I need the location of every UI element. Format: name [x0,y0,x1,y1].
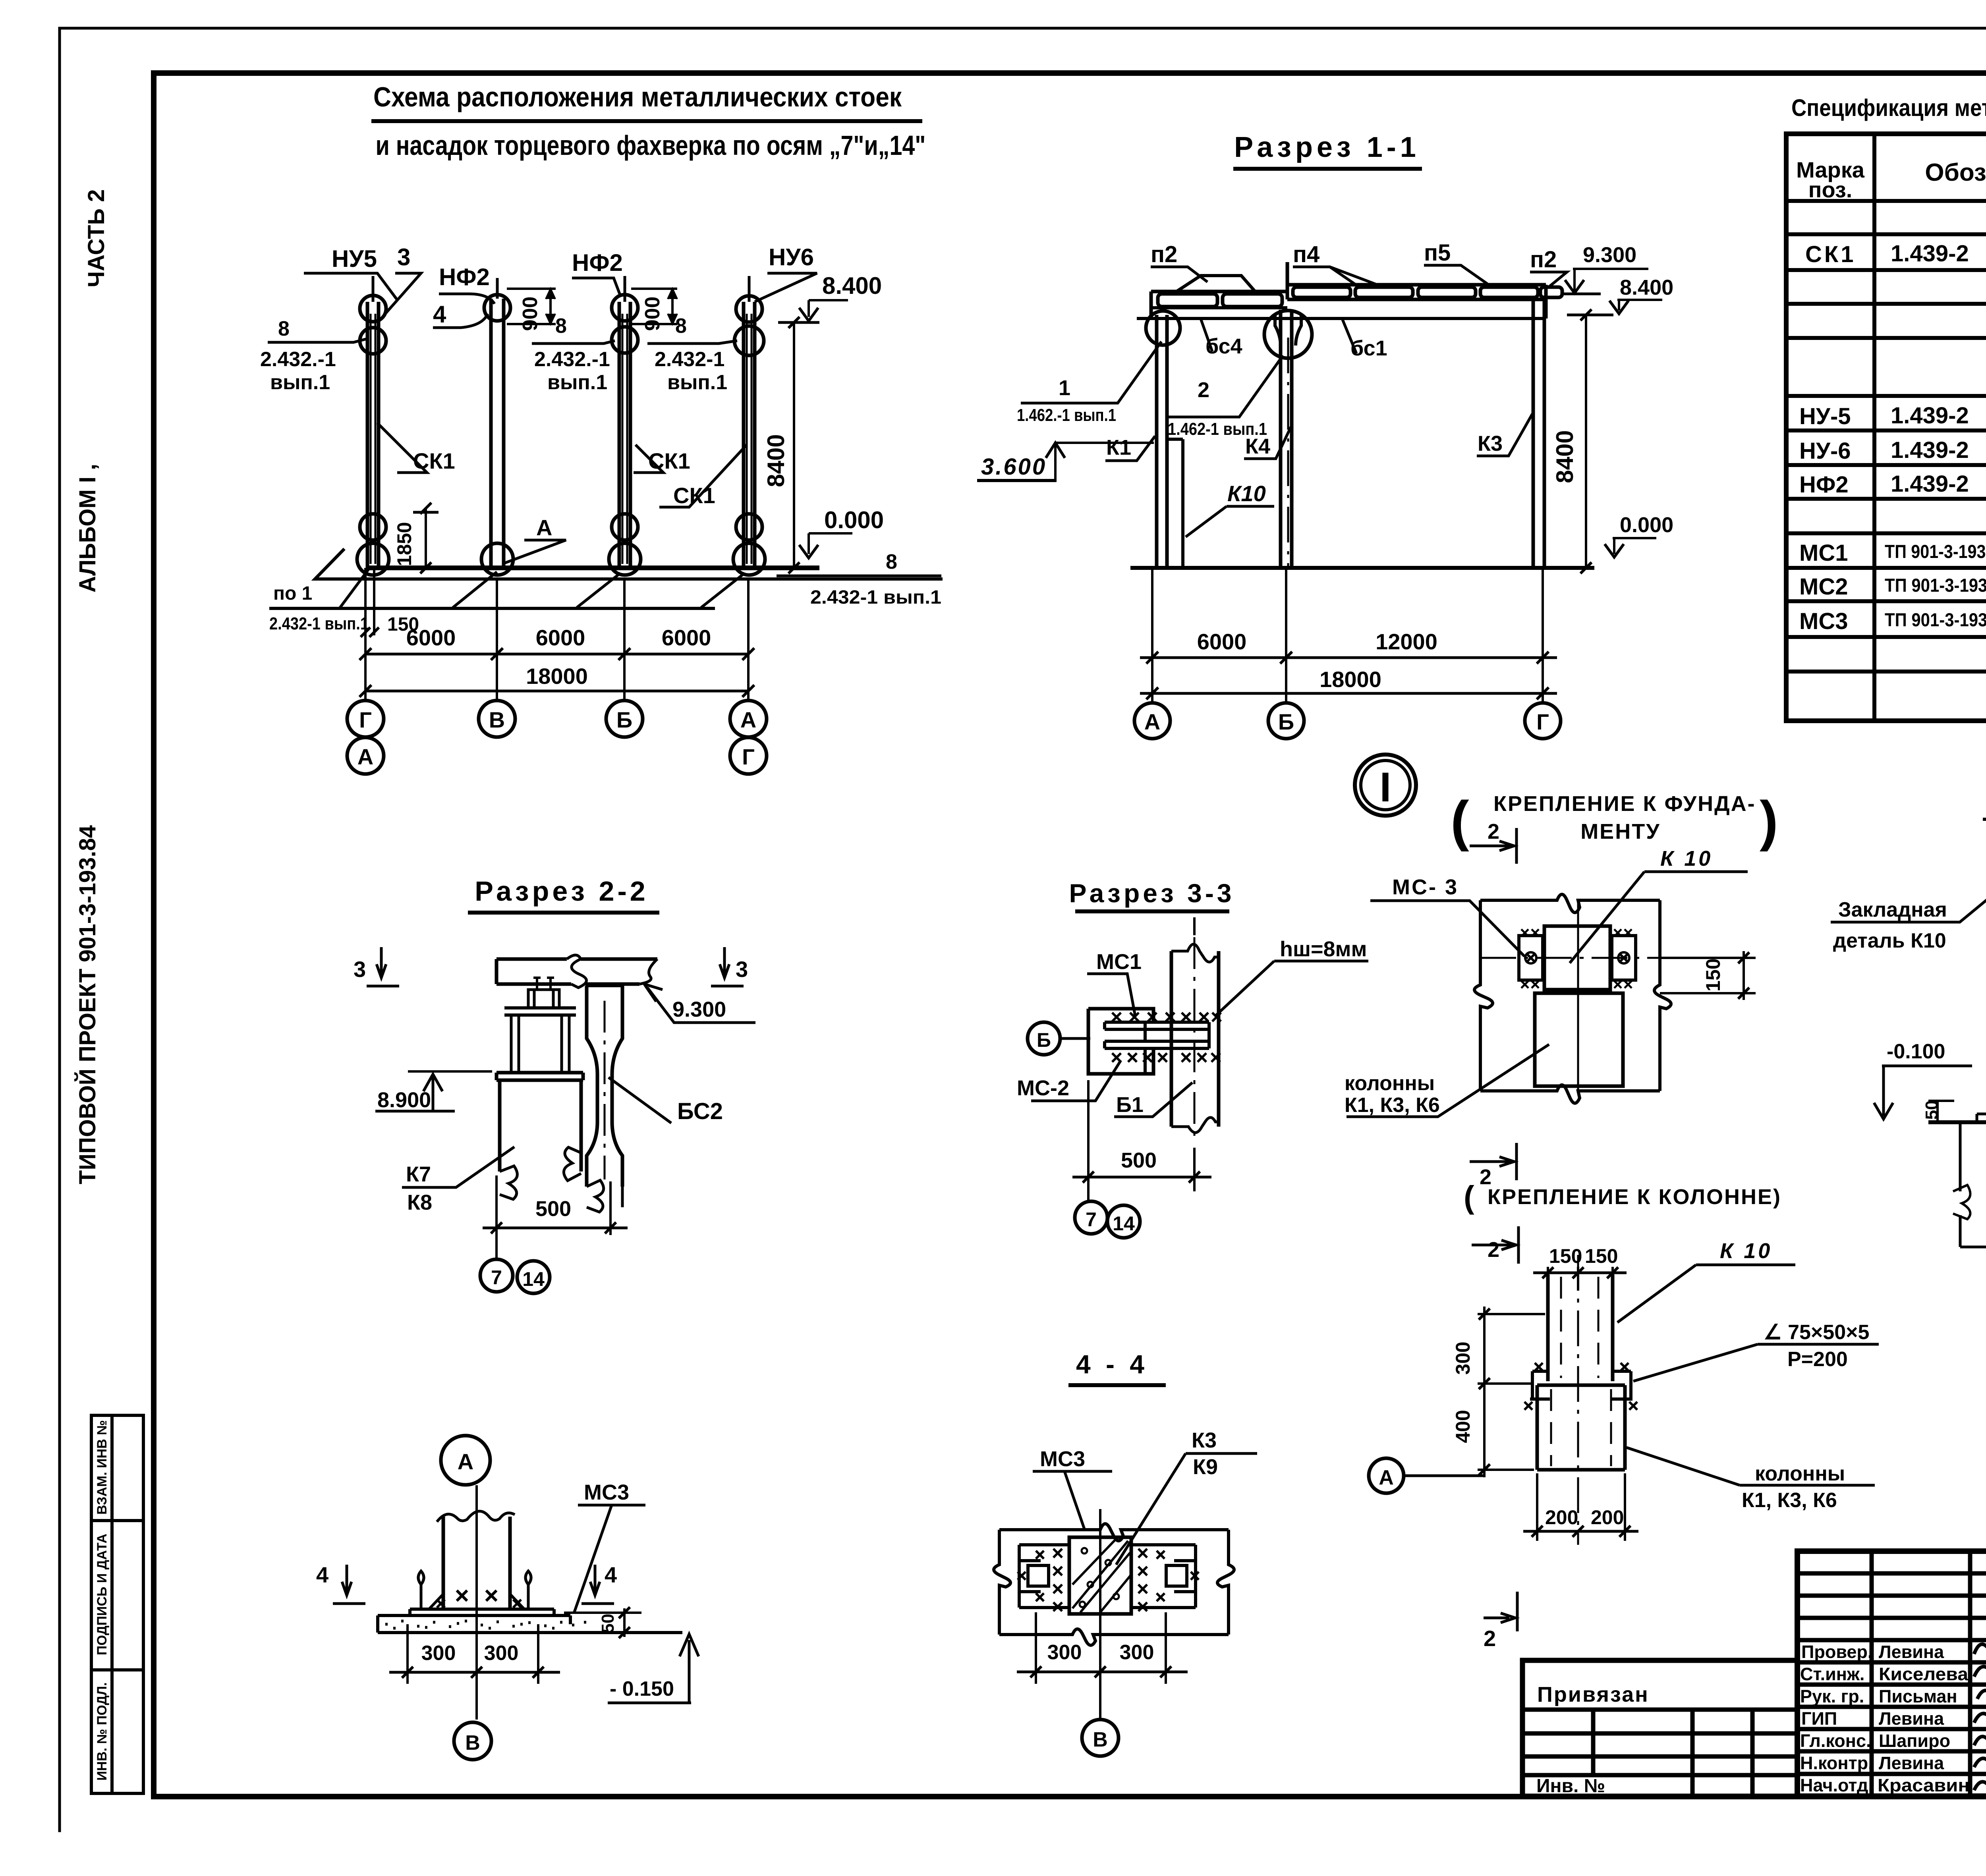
svg-text:200: 200 [1545,1506,1578,1529]
K4 centerline [1287,338,1289,568]
svg-text:I: I [1379,764,1391,811]
svg-text:Ст.инж.: Ст.инж. [1800,1664,1864,1684]
left margin stamp cells [91,1415,143,1793]
weld marks around plates [1521,929,1539,988]
-0.150 mark [608,1634,699,1703]
svg-text:200: 200 [1591,1506,1624,1529]
svg-text:ТП 901-3-193 -КЖИ МС1-МС3: ТП 901-3-193 -КЖИ МС1-МС3 [1885,575,1986,596]
svg-text:500: 500 [535,1197,571,1221]
hatched column [1069,1537,1131,1614]
svg-text:∠ 75×50×5: ∠ 75×50×5 [1764,1321,1869,1344]
slab break squiggle [567,955,587,988]
column СК1 axis Г [357,276,389,575]
svg-text:8400: 8400 [763,434,789,487]
svg-text:1.439-2: 1.439-2 [1891,437,1969,463]
weld x-marks bottom row [1112,1053,1167,1062]
svg-text:К8: К8 [407,1191,432,1214]
left bay roof band [1151,290,1287,293]
К 10 label leader [1617,1265,1795,1322]
900 dim #2 [631,289,677,324]
svg-text:2: 2 [1488,820,1499,843]
signatures (handwritten squiggles) [1974,1641,1986,1792]
150 dim right [1660,958,1756,993]
svg-text:1.462.-1 вып.1: 1.462.-1 вып.1 [1017,405,1116,425]
svg-text:Гл.конс.: Гл.конс. [1800,1731,1871,1751]
svg-text:Спецификация металлических с: Спецификация металлических стоек и насад… [1791,95,1986,121]
column K1 (axis A) [1157,315,1167,568]
50 dim left [1928,1101,1954,1122]
svg-text:СК1: СК1 [648,448,690,473]
K10 column square [1544,926,1610,990]
svg-text:-0.100: -0.100 [1887,1040,1945,1063]
svg-text:Инв. №: Инв. № [1536,1776,1605,1797]
svg-text:НФ2: НФ2 [439,264,490,290]
svg-text:и насадок торцевого фахверка: и насадок торцевого фахверка по осям „7"… [376,130,926,161]
svg-text:2.432.-1: 2.432.-1 [260,348,336,371]
section mark 2 top [1470,828,1517,864]
svg-text:0.000: 0.000 [824,507,884,533]
K10 pilaster on K1 [1169,439,1183,568]
svg-text:МС-2: МС-2 [1017,1076,1069,1100]
svg-text:9.300: 9.300 [672,998,726,1021]
svg-text:7: 7 [1086,1208,1097,1231]
svg-text:МС1: МС1 [1096,950,1142,974]
-0.100 mark [1874,1066,1972,1119]
leader to circles [495,1228,498,1259]
БС2 leader [609,1077,671,1123]
svg-text:): ) [1760,789,1778,852]
svg-text:МС- 3: МС- 3 [1392,875,1459,899]
svg-text:МС3: МС3 [1040,1447,1085,1471]
svg-text:Красавин: Красавин [1878,1775,1970,1795]
svg-text:500: 500 [1121,1148,1157,1172]
svg-text:1850: 1850 [393,522,415,566]
bc4 leader [1200,318,1212,351]
spec table body [1799,206,1986,634]
p2 label leader [1151,267,1207,282]
колонны label leader [1347,1044,1549,1117]
svg-text:2: 2 [1484,1626,1496,1651]
svg-text:поз.: поз. [1808,177,1853,202]
foundation strip [378,1615,682,1633]
top break [1171,944,1219,962]
left bay slabs [1158,294,1217,307]
svg-text:1.439-2: 1.439-2 [1891,241,1969,266]
НФ2(2) leader [572,278,620,296]
СК1 leaders [377,423,427,473]
МС-3 label leader [1370,901,1524,956]
dotted texture [385,1621,586,1628]
4 leader [433,314,488,328]
svg-text:Киселева: Киселева [1879,1664,1969,1684]
МС-3 plates [1519,936,1543,980]
svg-text:К3: К3 [1192,1428,1217,1452]
leader slants from column bases [340,569,369,608]
K10 column [1548,1274,1613,1381]
axis circles [1134,703,1170,739]
column bottom break [500,1166,517,1199]
svg-text:А: А [357,744,373,769]
НУ5 leader [304,273,397,300]
svg-text:СК1: СК1 [413,448,455,473]
МС3 label [574,1505,645,1613]
svg-text:А: А [1379,1466,1394,1489]
column НФ2 axis В [481,278,513,575]
svg-text:К1: К1 [1106,436,1131,459]
svg-text:300: 300 [1047,1641,1082,1664]
svg-text:В: В [489,707,505,732]
МС-2 label [1031,1060,1121,1101]
svg-text:8: 8 [555,315,567,338]
anchor bolts [418,1571,531,1609]
p2 right label leader [1530,272,1567,287]
svg-text:НУ-6: НУ-6 [1799,438,1851,464]
svg-text:50: 50 [1922,1100,1942,1120]
МС3 label [1033,1471,1112,1529]
base plate [1977,1114,1986,1122]
svg-text:МС1: МС1 [1799,540,1848,566]
axis circles [347,701,384,737]
300 300 dim [1036,1612,1166,1684]
svg-text:ИНВ. № ПОДЛ.: ИНВ. № ПОДЛ. [95,1682,110,1781]
svg-text:СК1: СК1 [673,483,715,508]
axis extension lines [365,568,748,701]
column СК1 axis А [733,276,765,575]
section mark 2 (below title) [1472,1226,1518,1264]
svg-text:8: 8 [675,315,687,338]
svg-text:Письман: Письман [1879,1686,1957,1706]
right bay roof band [1287,285,1546,299]
svg-text:колонны: колонны [1345,1072,1435,1095]
svg-text:3: 3 [397,244,410,270]
rows in left section [1797,1573,1986,1774]
svg-text:8.400: 8.400 [822,272,882,299]
svg-text:п2: п2 [1151,241,1177,267]
svg-text:18000: 18000 [1319,667,1381,692]
column band [1171,951,1219,1127]
svg-text:Б: Б [616,707,632,732]
svg-text:4: 4 [433,301,446,328]
300 300 dim [408,1624,538,1684]
svg-text:8.400: 8.400 [1620,276,1673,299]
svg-text:1: 1 [1059,376,1070,400]
svg-text:А: А [740,707,756,732]
svg-text:А: А [458,1449,473,1474]
weld x marks on plate [437,1600,521,1608]
right bay slabs [1293,287,1350,297]
svg-text:Обозначение: Обозначение [1925,159,1986,186]
svg-text:Н.контр.: Н.контр. [1800,1753,1873,1773]
svg-text:300: 300 [1120,1641,1154,1664]
svg-text:ВЗАМ. ИНВ №: ВЗАМ. ИНВ № [95,1420,110,1515]
А label leader [504,540,566,563]
150 offset dim [373,568,375,635]
svg-text:Левина: Левина [1879,1708,1944,1729]
НФ2(1) leader [439,294,495,304]
spec table headers [1796,153,1986,202]
svg-text:300: 300 [1452,1341,1474,1374]
svg-text:300: 300 [484,1642,519,1665]
svg-text:Разрез 3-3: Разрез 3-3 [1069,878,1234,908]
svg-text:К 10: К 10 [1720,1239,1772,1263]
connection plates [1105,1022,1209,1048]
svg-text:Закладная: Закладная [1838,898,1947,921]
svg-text:Разрез 2-2: Разрез 2-2 [475,876,648,907]
section mark 3 left [367,947,399,986]
svg-text:300: 300 [421,1642,456,1665]
svg-text:п2: п2 [1530,247,1557,272]
8400 vertical dim [793,322,795,568]
В circle [454,1722,491,1760]
8 2.432-1 label leaders (3x) [268,338,369,342]
lower column K1,K3,K6 [1535,993,1623,1086]
svg-text:400: 400 [1452,1410,1474,1443]
section mark 2 mid [1470,1143,1517,1180]
top extension above [1193,917,1196,935]
svg-text:МС3: МС3 [584,1480,629,1504]
svg-text:2.432-1 вып.1: 2.432-1 вып.1 [269,614,369,633]
50 dim [564,1608,641,1637]
svg-text:2.432-1: 2.432-1 [655,348,724,371]
p5 label leader [1424,265,1488,284]
svg-text:Б1: Б1 [1116,1093,1144,1117]
1 / 1.462-1 label [1021,342,1161,403]
К7/К8 leader [402,1147,514,1187]
3 leader [385,273,421,314]
svg-text:Нач.отд.: Нач.отд. [1800,1775,1873,1795]
svg-text:6000: 6000 [406,625,456,650]
stand bottom chord [504,1008,576,1015]
svg-text:8.900: 8.900 [377,1088,431,1112]
500 dim [496,1175,610,1235]
svg-text:К1, К3, К6: К1, К3, К6 [1742,1489,1837,1512]
К10 label leader [1570,872,1748,963]
svg-text:Разрез 1-1: Разрез 1-1 [1234,131,1420,163]
фахверк column бс2 [587,986,622,1187]
МС plates left/right [1019,1545,1069,1608]
svg-text:ЧАСТЬ 2: ЧАСТЬ 2 [83,189,109,287]
svg-text:150: 150 [1702,958,1724,991]
column K7/K8 body [500,1080,581,1172]
column base flanges [429,1590,524,1609]
plate bolts [1526,953,1629,963]
main stamp outline [1797,1551,1986,1796]
angle label leader [1633,1344,1879,1381]
svg-text:12000: 12000 [1376,629,1437,654]
joint circle middle [1264,311,1312,358]
svg-text:бс1: бс1 [1350,336,1387,360]
svg-text:К1, К3, К6: К1, К3, К6 [1345,1094,1440,1117]
node I double circle [1355,755,1416,816]
svg-text:Б: Б [1037,1029,1051,1051]
base line [1928,1120,1986,1124]
svg-text:К10: К10 [1227,481,1266,506]
svg-text:А: А [1144,709,1160,734]
svg-text:колонны: колонны [1755,1462,1845,1485]
A circle + line [1369,1458,1404,1493]
svg-text:НУ-5: НУ-5 [1799,403,1851,429]
svg-text:50: 50 [598,1614,618,1633]
svg-text:150: 150 [1585,1245,1618,1267]
svg-text:6000: 6000 [1197,629,1247,654]
svg-text:4 - 4: 4 - 4 [1076,1349,1148,1379]
К4 leader [1244,427,1291,459]
svg-text:А: А [536,515,552,540]
svg-text:2.432.-1: 2.432.-1 [534,348,610,371]
svg-text:Г: Г [359,707,372,732]
dim line 6000/12000 [1140,656,1557,659]
svg-text:К9: К9 [1193,1455,1218,1479]
column [443,1517,510,1609]
schema title underline [371,119,922,123]
svg-text:Г: Г [742,744,755,769]
svg-text:п4: п4 [1293,241,1319,267]
anchor bolts [533,978,554,990]
8400 vertical dim [1585,315,1587,568]
bc1 leader [1343,320,1356,353]
svg-text:КРЕПЛЕНИЕ К КОЛОННЕ): КРЕПЛЕНИЕ К КОЛОННЕ) [1488,1185,1781,1209]
svg-text:МС2: МС2 [1799,574,1848,600]
8 2.432-1 вып.1 right label [777,575,941,577]
900 dim #1 [507,289,556,324]
А circle [441,1436,490,1485]
1850 vertical dim [425,509,427,568]
колонны label leader [1627,1448,1875,1485]
svg-text:Привязан: Привязан [1537,1683,1649,1706]
joint circle left [1146,311,1180,345]
bearing block [528,990,559,1008]
top slab [496,959,657,984]
svg-text:по 1: по 1 [273,583,312,604]
svg-text:6000: 6000 [662,625,711,650]
svg-text:9.300: 9.300 [1583,243,1636,267]
svg-text:Б: Б [1278,709,1294,734]
Б circle [1028,1022,1060,1055]
svg-text:п5: п5 [1424,240,1451,266]
svg-text:6000: 6000 [536,625,585,650]
300/400 dims [1478,1314,1545,1470]
svg-text:14: 14 [1113,1212,1135,1235]
foundation plan outline with breaks [1480,894,1660,913]
stand legs [511,1015,569,1073]
svg-text:В: В [1093,1728,1108,1751]
svg-text:Левина: Левина [1879,1642,1944,1662]
base plate [410,1609,554,1615]
svg-text:(: ( [1464,1179,1474,1215]
hш=8мм label [1216,961,1368,1015]
svg-text:ГИП: ГИП [1801,1708,1837,1729]
svg-text:Г: Г [1536,709,1549,734]
svg-text:3: 3 [354,957,366,982]
svg-text:СК1: СК1 [1805,241,1856,267]
svg-text:деталь К10: деталь К10 [1833,929,1946,952]
svg-text:Шапиро: Шапиро [1879,1731,1950,1751]
dim line 6000s [365,653,748,656]
500 dim [1088,1080,1194,1191]
svg-text:0.000: 0.000 [1620,513,1673,537]
svg-text:hш=8мм: hш=8мм [1280,937,1367,961]
lower column [1537,1385,1625,1470]
К10 leader [1186,506,1274,537]
svg-text:Рук. гр.: Рук. гр. [1800,1686,1864,1706]
angle connectors [1530,1371,1632,1399]
К3 leader [1477,414,1532,456]
p4 label leader [1293,267,1414,285]
dim line 18000 [365,690,748,693]
svg-text:900: 900 [641,297,664,331]
svg-text:7: 7 [491,1266,502,1289]
svg-text:НФ2: НФ2 [572,249,623,276]
left 4 columns [1872,1551,1986,1796]
slab bottom edge (oblique) [315,549,943,579]
svg-text:- 0.150: - 0.150 [610,1677,674,1700]
svg-text:АЛЬБОМ I ,: АЛЬБОМ I , [75,464,100,593]
column СК1 axis Б [609,276,641,575]
base ground line [1130,566,1594,570]
svg-text:Схема расположения металличе: Схема расположения металлических стоек [373,81,902,112]
svg-text:ТП 901-3-193 -КЖИ МС1-МС3: ТП 901-3-193 -КЖИ МС1-МС3 [1885,609,1986,630]
svg-text:3.600: 3.600 [981,454,1047,480]
axis extension lines [1152,568,1543,703]
svg-text:НФ2: НФ2 [1799,472,1849,498]
svg-text:8: 8 [278,317,290,340]
dim line 18000 [1140,692,1557,695]
9.300 mark leader [644,984,755,1023]
8.400 mark [1617,300,1662,311]
150 150 dim [1548,1267,1613,1295]
weld x marks [1053,1549,1062,1611]
centerline [1099,1509,1101,1720]
svg-text:1.439-2: 1.439-2 [1891,471,1969,497]
svg-text:14: 14 [522,1268,545,1290]
svg-text:НУ5: НУ5 [332,245,377,272]
svg-text:вып.1: вып.1 [547,371,607,394]
svg-text:4: 4 [316,1562,328,1587]
p2 ridge hump [1177,276,1255,291]
svg-text:(: ( [1451,789,1469,852]
schema texts [260,244,941,769]
svg-text:вып.1: вып.1 [270,371,330,394]
svg-text:К 10: К 10 [1660,847,1713,870]
plan outline with breaks [999,1524,1229,1541]
2 / 1.462-1 label [1168,355,1283,417]
svg-text:КРЕПЛЕНИЕ К ФУНДА-: КРЕПЛЕНИЕ К ФУНДА- [1493,792,1756,816]
foundation below [1960,1122,1986,1247]
svg-text:3: 3 [736,957,748,982]
svg-text:МЕНТУ: МЕНТУ [1580,820,1661,843]
left stand box [1088,1009,1153,1074]
column K3 (axis Г) [1533,299,1544,568]
svg-text:К3: К3 [1478,432,1503,455]
svg-text:БС2: БС2 [677,1098,723,1124]
base beam line [366,566,819,570]
svg-text:1.439-2: 1.439-2 [1891,403,1969,428]
0.000 mark [1613,538,1656,554]
8.900 mark [375,1074,455,1111]
3.600 mark [977,479,1057,482]
svg-text:Левина: Левина [1879,1753,1944,1773]
svg-text:НУ6: НУ6 [769,244,814,270]
200 200 dim [1537,1473,1625,1541]
top beam line with breaks [1983,813,1986,830]
column K4 (axis Б) [1281,310,1292,568]
svg-text:2.432-1 вып.1: 2.432-1 вып.1 [810,587,941,608]
svg-text:вып.1: вып.1 [667,371,727,394]
svg-text:ТИПОВОЙ ПРОЕКТ 901-3-193.84: ТИПОВОЙ ПРОЕКТ 901-3-193.84 [75,825,100,1184]
МС1 label [1087,974,1135,1016]
section mark 3 right [711,947,744,986]
fork joint detail middle [1275,314,1301,345]
